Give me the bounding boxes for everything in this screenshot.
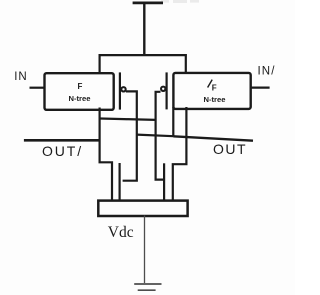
svg-text:F: F [78, 82, 83, 91]
block F N-tree (left) [45, 73, 114, 110]
IN input wire [30, 87, 46, 89]
wire OUT/ output [24, 139, 101, 142]
power terminal stem wire [143, 2, 145, 56]
wire right box to OUT [172, 107, 174, 136]
svg-text:IN: IN [14, 71, 28, 83]
wire cross connection [137, 135, 174, 137]
wire Q2 gate to node OUT/ [156, 92, 164, 180]
svg-text:IN/: IN/ [258, 66, 276, 78]
label /F slash (right box) [208, 80, 213, 88]
svg-text:OUT: OUT [213, 141, 247, 157]
transistor Q3 gate bar (bottom left NMOS) [118, 163, 120, 200]
svg-text:N-tree: N-tree [69, 94, 91, 103]
top rail wire [99, 54, 187, 56]
transistor Q2 gate bar (right PMOS) [166, 72, 168, 109]
wire right box down [173, 107, 187, 201]
ground [134, 283, 161, 285]
wire node OUT/ horizontal [100, 119, 156, 120]
svg-text:OUT/: OUT/ [42, 143, 83, 159]
wire left box down [100, 108, 112, 202]
wire bar to ground [144, 216, 146, 284]
svg-text:N-tree: N-tree [204, 95, 226, 104]
transistor Q1 bubble [121, 87, 125, 91]
wire rail to right box [185, 54, 187, 74]
svg-text:F: F [212, 84, 217, 93]
transistor Q1 gate bar (left PMOS) [119, 72, 121, 109]
svg-text:Vdc: Vdc [108, 224, 134, 241]
IN/ input wire [251, 86, 270, 88]
current source bar Vdc [98, 201, 187, 216]
transistor Q2 bubble [161, 87, 165, 91]
wire rail to left box [98, 54, 100, 74]
wire Q1 gate to node OUT [123, 91, 137, 180]
faint cropped caption top right [161, 0, 199, 3]
wire OUT output [173, 136, 253, 140]
transistor Q4 gate bar (bottom right NMOS) [163, 163, 165, 200]
block /F N-tree (right) [173, 73, 250, 109]
power terminal T-bar [133, 2, 163, 5]
